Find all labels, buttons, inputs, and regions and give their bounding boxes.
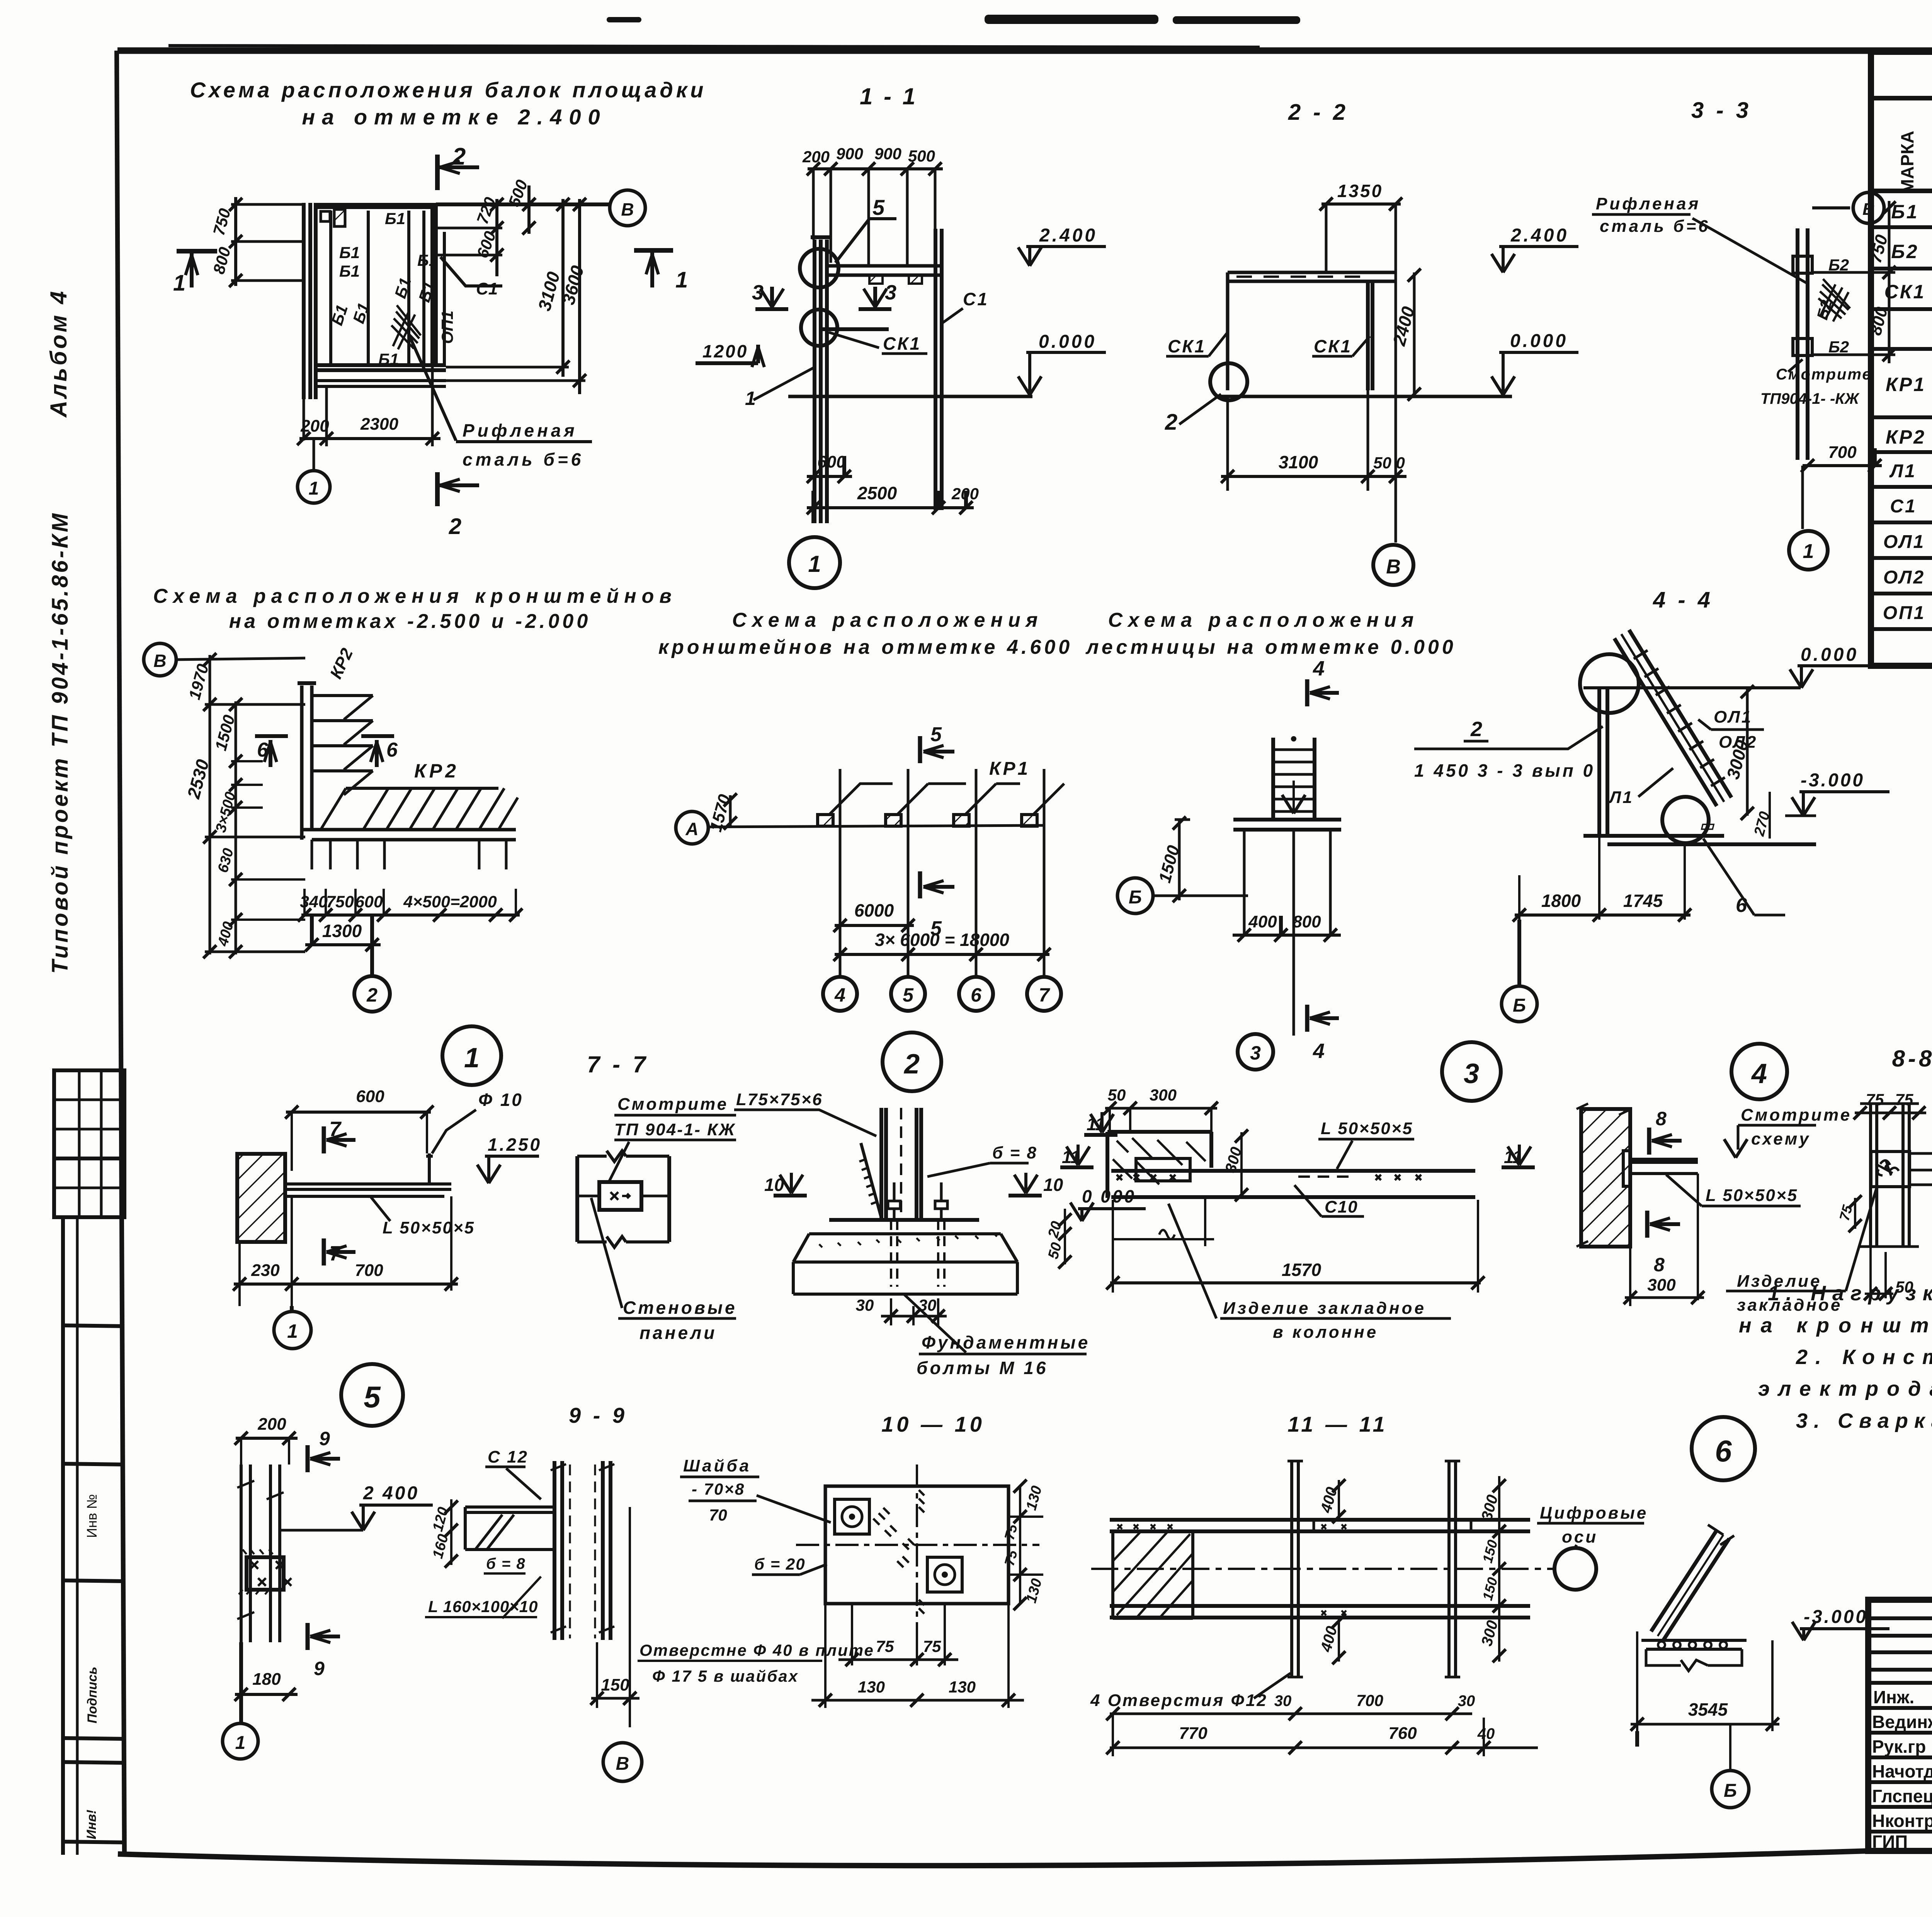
svg-text:6: 6 bbox=[1715, 1434, 1732, 1468]
svg-text:9: 9 bbox=[319, 1428, 330, 1449]
svg-text:кронштейнов на отметке 4.60: кронштейнов на отметке 4.600 bbox=[658, 636, 1073, 658]
svg-text:Л1: Л1 bbox=[1889, 461, 1917, 481]
svg-text:В: В bbox=[621, 199, 634, 219]
svg-text:L 50×50×5: L 50×50×5 bbox=[1706, 1186, 1798, 1205]
svg-text:МАРКА: МАРКА bbox=[1897, 131, 1917, 194]
svg-text:1 450 3 - 3 вып 0: 1 450 3 - 3 вып 0 bbox=[1414, 760, 1595, 781]
svg-text:1200: 1200 bbox=[702, 341, 748, 361]
svg-text:-3.000: -3.000 bbox=[1801, 770, 1865, 791]
svg-text:1: 1 bbox=[309, 478, 319, 499]
svg-text:2.400: 2.400 bbox=[1510, 225, 1569, 246]
svg-text:С1: С1 bbox=[963, 289, 989, 309]
svg-text:75: 75 bbox=[923, 1637, 941, 1655]
svg-text:Б2: Б2 bbox=[1891, 241, 1918, 262]
svg-text:В: В bbox=[153, 651, 166, 671]
svg-text:1: 1 bbox=[1803, 540, 1814, 563]
svg-text:5: 5 bbox=[930, 723, 942, 746]
svg-text:Ф 17 5 в шайбах: Ф 17 5 в шайбах bbox=[652, 1667, 799, 1685]
svg-text:Глспец: Глспец bbox=[1872, 1786, 1932, 1806]
svg-text:Б: Б bbox=[1129, 887, 1142, 908]
svg-text:Альбом 4: Альбом 4 bbox=[46, 289, 71, 418]
svg-text:4: 4 bbox=[1313, 1039, 1325, 1063]
svg-text:Б: Б bbox=[1724, 1781, 1737, 1801]
svg-text:Рифленая: Рифленая bbox=[463, 420, 578, 441]
svg-text:770: 770 bbox=[1179, 1724, 1207, 1743]
svg-text:10: 10 bbox=[1043, 1175, 1063, 1195]
svg-text:Рук.гр: Рук.гр bbox=[1872, 1737, 1926, 1757]
svg-text:Схема расположения: Схема расположения bbox=[1108, 609, 1419, 631]
svg-text:КР2: КР2 bbox=[1886, 426, 1926, 448]
svg-text:8: 8 bbox=[1656, 1108, 1667, 1129]
svg-text:50 0: 50 0 bbox=[1373, 454, 1405, 472]
svg-text:75: 75 bbox=[876, 1637, 894, 1655]
svg-text:400: 400 bbox=[1248, 912, 1277, 931]
svg-text:0.000: 0.000 bbox=[1510, 331, 1568, 351]
svg-text:СК1: СК1 bbox=[1168, 336, 1206, 356]
svg-text:3: 3 bbox=[1250, 1042, 1261, 1064]
svg-text:150: 150 bbox=[601, 1675, 629, 1694]
svg-text:1745: 1745 bbox=[1623, 891, 1663, 911]
svg-text:4: 4 bbox=[834, 984, 845, 1006]
svg-text:760: 760 bbox=[1388, 1724, 1417, 1743]
svg-text:30: 30 bbox=[1458, 1692, 1475, 1709]
svg-text:б = 8: б = 8 bbox=[992, 1143, 1037, 1162]
svg-text:7: 7 bbox=[1039, 984, 1050, 1006]
svg-text:Б1: Б1 bbox=[385, 209, 405, 228]
svg-text:ОП1: ОП1 bbox=[1883, 603, 1926, 623]
svg-text:500: 500 bbox=[908, 147, 935, 165]
svg-text:900: 900 bbox=[836, 145, 863, 163]
svg-text:200: 200 bbox=[300, 417, 329, 435]
svg-text:2500: 2500 bbox=[857, 483, 897, 503]
svg-text:ТП904-1- -КЖ: ТП904-1- -КЖ bbox=[1760, 390, 1860, 407]
svg-text:200: 200 bbox=[951, 485, 979, 503]
svg-text:1.250: 1.250 bbox=[488, 1135, 542, 1155]
svg-text:болты М 16: болты М 16 bbox=[917, 1358, 1048, 1378]
svg-text:1: 1 bbox=[173, 270, 185, 296]
svg-text:ОЛ1: ОЛ1 bbox=[1883, 532, 1925, 552]
svg-text:900: 900 bbox=[874, 145, 901, 163]
svg-text:30: 30 bbox=[856, 1296, 874, 1314]
svg-text:б = 20: б = 20 bbox=[754, 1555, 806, 1573]
svg-text:Инв №: Инв № bbox=[84, 1494, 100, 1538]
svg-text:750: 750 bbox=[326, 893, 354, 911]
svg-text:11 — 11: 11 — 11 bbox=[1287, 1412, 1388, 1436]
svg-text:340: 340 bbox=[300, 893, 328, 911]
svg-text:200: 200 bbox=[257, 1415, 286, 1434]
svg-text:7 - 7: 7 - 7 bbox=[587, 1051, 649, 1077]
svg-text:Б2: Б2 bbox=[1828, 338, 1849, 356]
svg-text:3: 3 bbox=[885, 281, 896, 304]
svg-text:6000: 6000 bbox=[854, 900, 894, 920]
svg-text:Б1: Б1 bbox=[378, 350, 399, 368]
svg-text:600: 600 bbox=[355, 893, 383, 911]
svg-text:электродами Э42 по ГОСТ 9467: электродами Э42 по ГОСТ 9467-75. bbox=[1758, 1377, 1932, 1400]
svg-text:6: 6 bbox=[386, 739, 398, 761]
svg-text:5: 5 bbox=[872, 195, 885, 219]
svg-text:L 160×100×10: L 160×100×10 bbox=[428, 1597, 538, 1616]
svg-text:ГИП: ГИП bbox=[1872, 1832, 1908, 1852]
svg-text:оси: оси bbox=[1562, 1527, 1598, 1546]
svg-text:6: 6 bbox=[971, 984, 982, 1006]
svg-text:СК1: СК1 bbox=[1884, 281, 1926, 303]
svg-text:75: 75 bbox=[1866, 1090, 1884, 1109]
svg-text:Б1: Б1 bbox=[1891, 201, 1918, 223]
svg-text:СК1: СК1 bbox=[1314, 336, 1352, 356]
svg-text:4: 4 bbox=[1313, 657, 1325, 680]
svg-text:на отметке 2.400: на отметке 2.400 bbox=[302, 105, 607, 129]
svg-text:Схема расположения: Схема расположения bbox=[732, 609, 1043, 631]
svg-text:- 70×8: - 70×8 bbox=[692, 1480, 745, 1498]
svg-text:СК1: СК1 bbox=[883, 333, 921, 354]
svg-text:Изделие: Изделие bbox=[1737, 1272, 1821, 1291]
svg-text:3 - 3: 3 - 3 bbox=[1691, 98, 1752, 123]
svg-text:130: 130 bbox=[949, 1678, 976, 1696]
svg-text:200: 200 bbox=[802, 148, 830, 166]
svg-text:1: 1 bbox=[287, 1320, 298, 1342]
svg-text:Изделие закладное: Изделие закладное bbox=[1223, 1299, 1426, 1318]
svg-text:700: 700 bbox=[355, 1261, 383, 1280]
svg-text:2: 2 bbox=[1470, 718, 1482, 741]
svg-text:Стеновые: Стеновые bbox=[623, 1298, 737, 1318]
svg-text:Инж.: Инж. bbox=[1873, 1687, 1914, 1707]
svg-text:40: 40 bbox=[1477, 1725, 1495, 1742]
svg-text:50: 50 bbox=[1895, 1278, 1913, 1296]
svg-text:L75×75×6: L75×75×6 bbox=[736, 1090, 823, 1109]
svg-text:70: 70 bbox=[709, 1506, 727, 1524]
svg-text:9: 9 bbox=[314, 1658, 325, 1679]
svg-text:Б1: Б1 bbox=[417, 251, 438, 269]
svg-text:1 - 1: 1 - 1 bbox=[860, 83, 918, 109]
svg-text:на отметках -2.500 и -2.00: на отметках -2.500 и -2.000 bbox=[229, 610, 591, 633]
svg-text:Рифленая: Рифленая bbox=[1596, 194, 1701, 213]
svg-text:ТП 904-1- КЖ: ТП 904-1- КЖ bbox=[614, 1120, 736, 1139]
svg-text:2: 2 bbox=[366, 984, 378, 1006]
svg-text:3: 3 bbox=[1464, 1058, 1479, 1089]
svg-text:Ф 10: Ф 10 bbox=[478, 1090, 523, 1110]
svg-text:8: 8 bbox=[1654, 1254, 1665, 1276]
svg-text:L 50×50×5: L 50×50×5 bbox=[1321, 1119, 1413, 1138]
svg-text:Отверстне Ф 40 в плите: Отверстне Ф 40 в плите bbox=[639, 1641, 874, 1659]
svg-text:800: 800 bbox=[1293, 912, 1321, 931]
svg-text:3× 6000 = 18000: 3× 6000 = 18000 bbox=[875, 930, 1009, 950]
svg-text:С1: С1 bbox=[1890, 496, 1917, 517]
svg-text:1: 1 bbox=[675, 267, 688, 293]
svg-text:1800: 1800 bbox=[1541, 891, 1581, 911]
svg-text:Начотд: Начотд bbox=[1872, 1761, 1932, 1781]
svg-text:2: 2 bbox=[1165, 410, 1177, 435]
svg-text:Смотрите: Смотрите bbox=[1776, 366, 1872, 383]
svg-text:А: А bbox=[685, 819, 698, 839]
svg-text:Шайба: Шайба bbox=[683, 1456, 751, 1475]
svg-text:ОП1: ОП1 bbox=[438, 311, 456, 344]
svg-text:Нконтр: Нконтр bbox=[1872, 1811, 1932, 1831]
svg-text:Смотрите: Смотрите bbox=[1741, 1106, 1852, 1124]
svg-text:сталь б=6: сталь б=6 bbox=[463, 449, 584, 469]
svg-text:2 - 2: 2 - 2 bbox=[1288, 100, 1349, 125]
svg-text:130: 130 bbox=[858, 1678, 885, 1696]
svg-text:1300: 1300 bbox=[322, 921, 362, 941]
svg-text:б = 8: б = 8 bbox=[486, 1555, 526, 1572]
svg-text:панели: панели bbox=[639, 1323, 717, 1343]
svg-text:2.400: 2.400 bbox=[1039, 225, 1097, 246]
svg-text:2: 2 bbox=[449, 514, 461, 539]
svg-text:4: 4 bbox=[1751, 1058, 1767, 1089]
svg-text:3. Сварка ручная дуговая hш: 3. Сварка ручная дуговая hш = 4 мм. bbox=[1796, 1409, 1932, 1432]
svg-text:Цифровые: Цифровые bbox=[1540, 1504, 1648, 1522]
svg-text:▭: ▭ bbox=[1699, 817, 1715, 834]
svg-text:С1: С1 bbox=[476, 279, 498, 298]
svg-text:1350: 1350 bbox=[1337, 181, 1383, 201]
svg-text:230: 230 bbox=[251, 1261, 280, 1280]
svg-text:КР2: КР2 bbox=[414, 760, 459, 782]
svg-text:Б1: Б1 bbox=[339, 243, 360, 262]
svg-text:1570: 1570 bbox=[1282, 1260, 1321, 1280]
svg-text:закладное: закладное bbox=[1737, 1296, 1842, 1315]
svg-text:С10: С10 bbox=[1325, 1197, 1358, 1216]
svg-text:Б: Б bbox=[1513, 995, 1526, 1016]
svg-text:на кронштейны в подвале - Nˎ: на кронштейны в подвале - Nˎ= 0.5 КН. bbox=[1739, 1314, 1932, 1337]
svg-text:Смотрите: Смотрите bbox=[617, 1095, 728, 1114]
svg-text:2300: 2300 bbox=[360, 415, 398, 434]
svg-text:КР1: КР1 bbox=[989, 759, 1030, 779]
svg-text:L 50×50×5: L 50×50×5 bbox=[383, 1218, 475, 1237]
svg-text:в колонне: в колонне bbox=[1273, 1323, 1378, 1342]
svg-text:Схема расположения балок пл: Схема расположения балок площадки bbox=[190, 78, 707, 102]
svg-text:30: 30 bbox=[1274, 1692, 1292, 1709]
svg-text:600: 600 bbox=[817, 452, 846, 471]
svg-text:600: 600 bbox=[356, 1087, 384, 1106]
svg-text:8-8: 8-8 bbox=[1892, 1046, 1932, 1072]
svg-text:2: 2 bbox=[903, 1049, 920, 1080]
svg-text:Инв!: Инв! bbox=[84, 1810, 99, 1839]
svg-text:300: 300 bbox=[1647, 1276, 1676, 1294]
svg-text:2. Конструкции сварные. Сварк: 2. Конструкции сварные. Сварку производи… bbox=[1796, 1345, 1932, 1369]
svg-text:Подпись: Подпись bbox=[85, 1667, 100, 1723]
svg-text:В: В bbox=[1386, 556, 1401, 578]
svg-text:Л1: Л1 bbox=[1608, 788, 1634, 807]
svg-text:3100: 3100 bbox=[1279, 452, 1318, 472]
svg-text:схему: схему bbox=[1751, 1129, 1811, 1148]
svg-text:В: В bbox=[616, 1754, 629, 1774]
svg-text:10 — 10: 10 — 10 bbox=[881, 1412, 985, 1436]
svg-text:КР1: КР1 bbox=[1886, 374, 1926, 395]
svg-text:5: 5 bbox=[364, 1380, 381, 1414]
svg-text:0.000: 0.000 bbox=[1801, 645, 1859, 665]
svg-text:В: В bbox=[1862, 200, 1875, 219]
svg-text:Вединж: Вединж bbox=[1872, 1712, 1932, 1732]
svg-text:180: 180 bbox=[252, 1670, 281, 1689]
svg-text:700: 700 bbox=[1828, 443, 1857, 462]
svg-text:1: 1 bbox=[235, 1733, 246, 1753]
svg-text:Б1: Б1 bbox=[339, 262, 360, 280]
svg-text:50: 50 bbox=[1108, 1086, 1126, 1104]
svg-text:С 12: С 12 bbox=[488, 1448, 528, 1466]
svg-text:3545: 3545 bbox=[1688, 1699, 1728, 1720]
svg-text:300: 300 bbox=[1150, 1086, 1177, 1104]
svg-text:4 - 4: 4 - 4 bbox=[1653, 587, 1713, 612]
svg-text:4×500=2000: 4×500=2000 bbox=[403, 893, 497, 911]
svg-text:4 Отверстия Ф12: 4 Отверстия Ф12 bbox=[1090, 1691, 1268, 1710]
svg-text:1: 1 bbox=[808, 551, 821, 577]
svg-text:700: 700 bbox=[1356, 1691, 1383, 1709]
svg-text:Схема расположения кронштейн: Схема расположения кронштейнов bbox=[153, 585, 677, 607]
svg-text:2 400: 2 400 bbox=[363, 1483, 419, 1504]
svg-text:9 - 9: 9 - 9 bbox=[569, 1403, 628, 1427]
svg-text:Типовой проект ТП 904-1-65: Типовой проект ТП 904-1-65.86-КМ bbox=[48, 511, 73, 974]
svg-text:0.000: 0.000 bbox=[1039, 332, 1097, 352]
svg-text:лестницы на отметке 0.000: лестницы на отметке 0.000 bbox=[1085, 636, 1456, 658]
svg-text:1: 1 bbox=[464, 1043, 480, 1073]
svg-text:ОЛ2: ОЛ2 bbox=[1883, 567, 1925, 588]
svg-text:5: 5 bbox=[903, 984, 914, 1006]
